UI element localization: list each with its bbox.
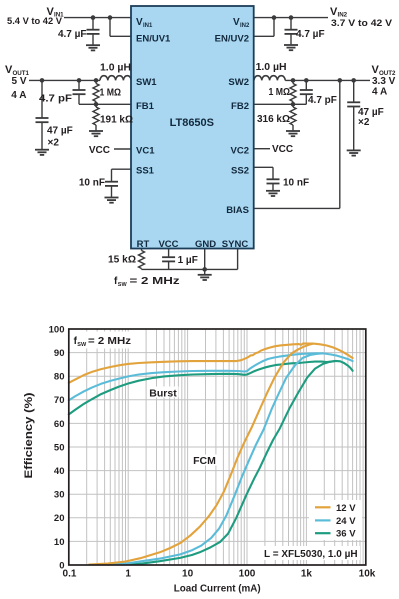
svg-text:5.4 V to 42 V: 5.4 V to 42 V <box>7 16 63 27</box>
svg-text:L = XFL5030, 1.0 µH: L = XFL5030, 1.0 µH <box>264 549 358 560</box>
svg-text:60: 60 <box>54 419 65 430</box>
svg-text:30: 30 <box>54 490 65 501</box>
svg-text:4.7 pF: 4.7 pF <box>39 94 72 105</box>
svg-text:IN1: IN1 <box>143 23 153 29</box>
svg-text:1 µF: 1 µF <box>178 255 198 266</box>
svg-text:= 2 MHz: = 2 MHz <box>88 336 131 347</box>
svg-text:4 A: 4 A <box>372 87 387 98</box>
svg-text:316 kΩ: 316 kΩ <box>257 114 290 125</box>
svg-text:FB2: FB2 <box>231 101 249 112</box>
svg-text:10: 10 <box>182 569 194 580</box>
svg-text:4.7 µF: 4.7 µF <box>58 29 87 40</box>
svg-text:90: 90 <box>54 348 65 359</box>
svg-text:SYNC: SYNC <box>222 239 249 250</box>
svg-text:EN/UV2: EN/UV2 <box>215 34 249 45</box>
svg-text:1: 1 <box>125 569 131 580</box>
svg-text:10: 10 <box>54 537 65 548</box>
svg-text:36 V: 36 V <box>336 529 356 540</box>
svg-text:3.3 V: 3.3 V <box>372 76 396 87</box>
svg-text:70: 70 <box>54 395 65 406</box>
svg-text:1.0 µH: 1.0 µH <box>256 62 287 73</box>
svg-text:EN/UV1: EN/UV1 <box>136 34 171 45</box>
svg-text:1 MΩ: 1 MΩ <box>269 87 291 98</box>
svg-text:RT: RT <box>137 239 150 250</box>
svg-text:SS1: SS1 <box>136 166 155 177</box>
svg-text:3.7 V to 42 V: 3.7 V to 42 V <box>331 18 393 29</box>
svg-text:24 V: 24 V <box>336 516 356 527</box>
svg-text:47 µF: 47 µF <box>47 126 73 137</box>
svg-text:V: V <box>233 17 240 28</box>
svg-text:80: 80 <box>54 372 65 383</box>
svg-text:1 MΩ: 1 MΩ <box>100 88 122 99</box>
svg-text:100: 100 <box>239 569 256 580</box>
svg-text:VCC: VCC <box>158 239 178 250</box>
svg-text:Burst: Burst <box>149 387 177 399</box>
svg-text:×2: ×2 <box>358 117 370 128</box>
svg-text:5 V: 5 V <box>11 76 26 87</box>
svg-text:V: V <box>136 17 143 28</box>
svg-text:40: 40 <box>54 466 65 477</box>
svg-text:VC2: VC2 <box>231 146 249 157</box>
svg-text:20: 20 <box>54 513 65 524</box>
svg-text:FB1: FB1 <box>136 101 155 112</box>
svg-text:SW2: SW2 <box>228 77 249 88</box>
svg-text:Load Current (mA): Load Current (mA) <box>174 583 261 594</box>
svg-text:SW: SW <box>118 282 128 288</box>
svg-text:SW: SW <box>77 342 87 348</box>
svg-text:4 A: 4 A <box>11 90 26 101</box>
svg-text:12 V: 12 V <box>336 503 356 514</box>
svg-text:LT8650S: LT8650S <box>170 117 214 129</box>
svg-text:VC1: VC1 <box>136 146 155 157</box>
svg-text:VCC: VCC <box>272 144 293 155</box>
svg-text:BIAS: BIAS <box>226 205 249 216</box>
svg-text:4.7 pF: 4.7 pF <box>308 95 337 106</box>
svg-text:1k: 1k <box>301 569 313 580</box>
svg-text:4.7 µF: 4.7 µF <box>296 29 325 40</box>
svg-text:GND: GND <box>195 239 216 250</box>
svg-text:100: 100 <box>49 324 65 335</box>
svg-text:10k: 10k <box>359 569 376 580</box>
svg-text:×2: ×2 <box>48 137 60 148</box>
svg-text:= 2 MHz: = 2 MHz <box>130 276 180 287</box>
svg-text:10 nF: 10 nF <box>79 178 105 189</box>
svg-text:SS2: SS2 <box>231 166 249 177</box>
svg-text:15 kΩ: 15 kΩ <box>108 255 136 266</box>
svg-text:191 kΩ: 191 kΩ <box>100 115 133 126</box>
svg-text:1.0 µH: 1.0 µH <box>100 62 131 73</box>
svg-text:IN2: IN2 <box>240 23 250 29</box>
svg-text:10 nF: 10 nF <box>283 178 309 189</box>
svg-text:FCM: FCM <box>193 455 216 467</box>
svg-text:0.1: 0.1 <box>63 569 77 580</box>
svg-text:Efficiency (%): Efficiency (%) <box>23 392 35 478</box>
svg-text:VCC: VCC <box>89 145 110 156</box>
svg-text:50: 50 <box>54 442 65 453</box>
svg-text:SW1: SW1 <box>136 77 157 88</box>
